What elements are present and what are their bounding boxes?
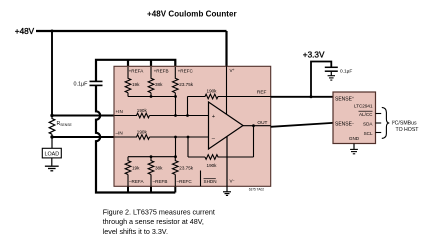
wire -node down to bottom REF bus: [175, 137, 177, 157]
svg-text:23.75k: 23.75k: [179, 82, 193, 87]
svg-text:SENSE+: SENSE+: [335, 96, 354, 102]
svg-text:0.1µF: 0.1µF: [340, 69, 352, 75]
brace I2C group: [382, 107, 390, 138]
pin V+: [226, 66, 228, 114]
junction dot bottom bus 38k: [150, 155, 153, 158]
pin V-: [226, 137, 228, 192]
wire RSENSE bottom to LOAD: [51, 137, 53, 148]
pin SHDN: [200, 171, 202, 187]
resistor 190k (+IN): [115, 113, 209, 118]
resistor RSENSE: [49, 116, 55, 138]
svg-text:SHDN: SHDN: [204, 179, 217, 184]
svg-text:LOAD: LOAD: [44, 152, 59, 158]
wire SCL stub: [376, 132, 382, 134]
junction dot +3.3V / REF / SENSE+: [310, 95, 313, 98]
junction dot -node a: [174, 136, 177, 139]
junction dot +node a: [174, 114, 177, 117]
svg-text:19k: 19k: [132, 166, 140, 171]
op-amp difference amplifier triangle: [209, 102, 244, 149]
svg-text:through a sense resistor at 48: through a sense resistor at 48V,: [103, 217, 204, 226]
resistor 38k (top): [148, 67, 154, 97]
svg-text:38k: 38k: [155, 166, 163, 171]
capacitor C1 0.1uF plates: [90, 80, 103, 82]
node sense+ junction: [50, 114, 53, 117]
svg-text:19k: 19k: [132, 82, 140, 87]
resistor 190k (REF): [188, 94, 271, 99]
wire feedback down: [253, 126, 255, 157]
wire OUT to SENSE-: [271, 123, 333, 127]
wire AL/CC stub: [376, 113, 382, 115]
wire -REF strap left side with crossover hops: [96, 85, 175, 192]
LOAD box: [42, 148, 61, 158]
wire bottom REF bus: [128, 156, 176, 158]
wire +node up to REF 190k: [187, 97, 189, 116]
svg-text:SDA: SDA: [363, 122, 373, 127]
svg-text:+REFA: +REFA: [129, 69, 145, 74]
svg-text:–REFB: –REFB: [153, 179, 168, 184]
wire -REFC pin riser: [174, 186, 176, 192]
svg-text:–REFA: –REFA: [129, 179, 144, 184]
wire OUT inside: [243, 125, 271, 127]
wire feedback up to -node: [187, 137, 189, 157]
svg-text:LTC2941: LTC2941: [354, 103, 373, 108]
resistor 19k (bottom): [125, 157, 131, 187]
junction dot top bus 23.75k: [174, 95, 177, 98]
node sense- junction: [50, 135, 53, 138]
svg-text:REF: REF: [257, 90, 267, 96]
wire +REFB pin drop: [150, 60, 152, 67]
resistor 38k (bottom): [148, 157, 154, 187]
wire GND pin: [353, 144, 355, 150]
svg-text:0.1µF: 0.1µF: [74, 82, 89, 88]
resistor 23.75k (bottom): [173, 157, 179, 187]
svg-text:190k: 190k: [207, 88, 218, 93]
svg-text:GND: GND: [349, 136, 360, 141]
wire +REFA pin drop: [127, 60, 129, 67]
IC U2 LTC2941 block body: [333, 92, 376, 144]
svg-text:190k: 190k: [137, 129, 148, 134]
junction dot bottom bus 23.75k: [174, 155, 177, 158]
wire SDA stub: [376, 122, 382, 124]
svg-text:190k: 190k: [137, 108, 148, 113]
wire +REF strap top: [96, 60, 175, 81]
wire vertical drop from +48V rail to RSENSE: [51, 31, 53, 116]
wire top bus to +node: [175, 97, 177, 116]
junction dot on +48V rail at x=52: [51, 30, 54, 33]
svg-text:AL/CC: AL/CC: [359, 112, 373, 117]
resistor 190k (-IN): [115, 135, 209, 140]
resistor 23.75k (top): [173, 67, 179, 97]
wire LOAD to ground: [51, 158, 53, 166]
wire V+ drop from rail to LT6375: [225, 31, 227, 67]
wire C2 to ground: [330, 71, 332, 75]
svg-text:Figure 2. LT6375 measures curr: Figure 2. LT6375 measures current: [103, 207, 215, 216]
svg-text:OUT: OUT: [257, 120, 267, 126]
svg-text:+REFC: +REFC: [178, 69, 194, 74]
svg-text:SCL: SCL: [364, 131, 373, 136]
svg-text:–REFC: –REFC: [177, 179, 193, 184]
ground under LTC2941: [350, 148, 358, 150]
ground under LOAD: [45, 165, 59, 167]
junction dot -node b: [187, 136, 190, 139]
capacitor C2 0.1uF plates: [325, 66, 338, 68]
svg-text:23.75k: 23.75k: [179, 166, 193, 171]
wire sense- tap to -IN: [52, 136, 115, 138]
wire -REFA pin riser: [127, 186, 129, 192]
svg-text:+48V Coulomb Counter: +48V Coulomb Counter: [147, 10, 237, 19]
junction dot +node b: [186, 114, 189, 117]
svg-text:TO HOST: TO HOST: [396, 127, 420, 133]
svg-text:+48V: +48V: [15, 27, 35, 36]
svg-text:6375 TA02: 6375 TA02: [249, 187, 265, 191]
wire +3.3V rail: [311, 62, 331, 97]
junction dot top bus 38k: [150, 95, 153, 98]
svg-text:190k: 190k: [207, 163, 218, 168]
ground under V-: [223, 191, 231, 193]
svg-text:+: +: [212, 114, 216, 120]
svg-text:I²C/SMBus: I²C/SMBus: [392, 121, 417, 127]
wire REF to SENSE+: [271, 96, 333, 98]
svg-text:+3.3V: +3.3V: [303, 50, 325, 59]
wire top REF bus: [128, 96, 176, 98]
svg-text:level shifts it to 3.3V.: level shifts it to 3.3V.: [103, 227, 168, 236]
op-amp U1 LT6375 block body: [114, 66, 271, 186]
svg-text:38k: 38k: [155, 82, 163, 87]
svg-text:+IN: +IN: [116, 109, 123, 114]
wire sense+ tap to +IN: [52, 115, 115, 117]
ground under C2: [328, 75, 335, 77]
wire +48V top rail: [36, 30, 227, 32]
svg-text:+REFB: +REFB: [154, 69, 169, 74]
junction dot OUT feedback tap: [252, 124, 255, 127]
resistor 19k (top): [125, 67, 131, 97]
svg-text:SENSE–: SENSE–: [335, 121, 354, 127]
wire -REFB pin riser: [150, 186, 152, 192]
resistor 190k (feedback): [188, 155, 254, 160]
svg-text:–IN: –IN: [116, 131, 123, 136]
